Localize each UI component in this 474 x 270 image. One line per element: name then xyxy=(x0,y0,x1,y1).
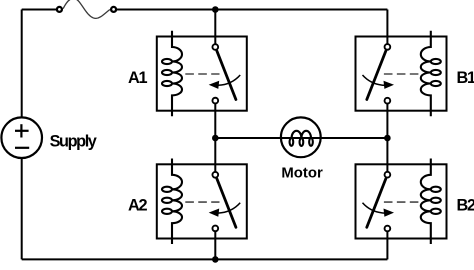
svg-text:Motor: Motor xyxy=(281,166,323,182)
svg-text:B2: B2 xyxy=(457,197,474,215)
svg-text:Supply: Supply xyxy=(50,132,97,150)
svg-text:A2: A2 xyxy=(128,197,148,215)
svg-text:A1: A1 xyxy=(128,69,148,87)
svg-text:B1: B1 xyxy=(457,69,474,87)
